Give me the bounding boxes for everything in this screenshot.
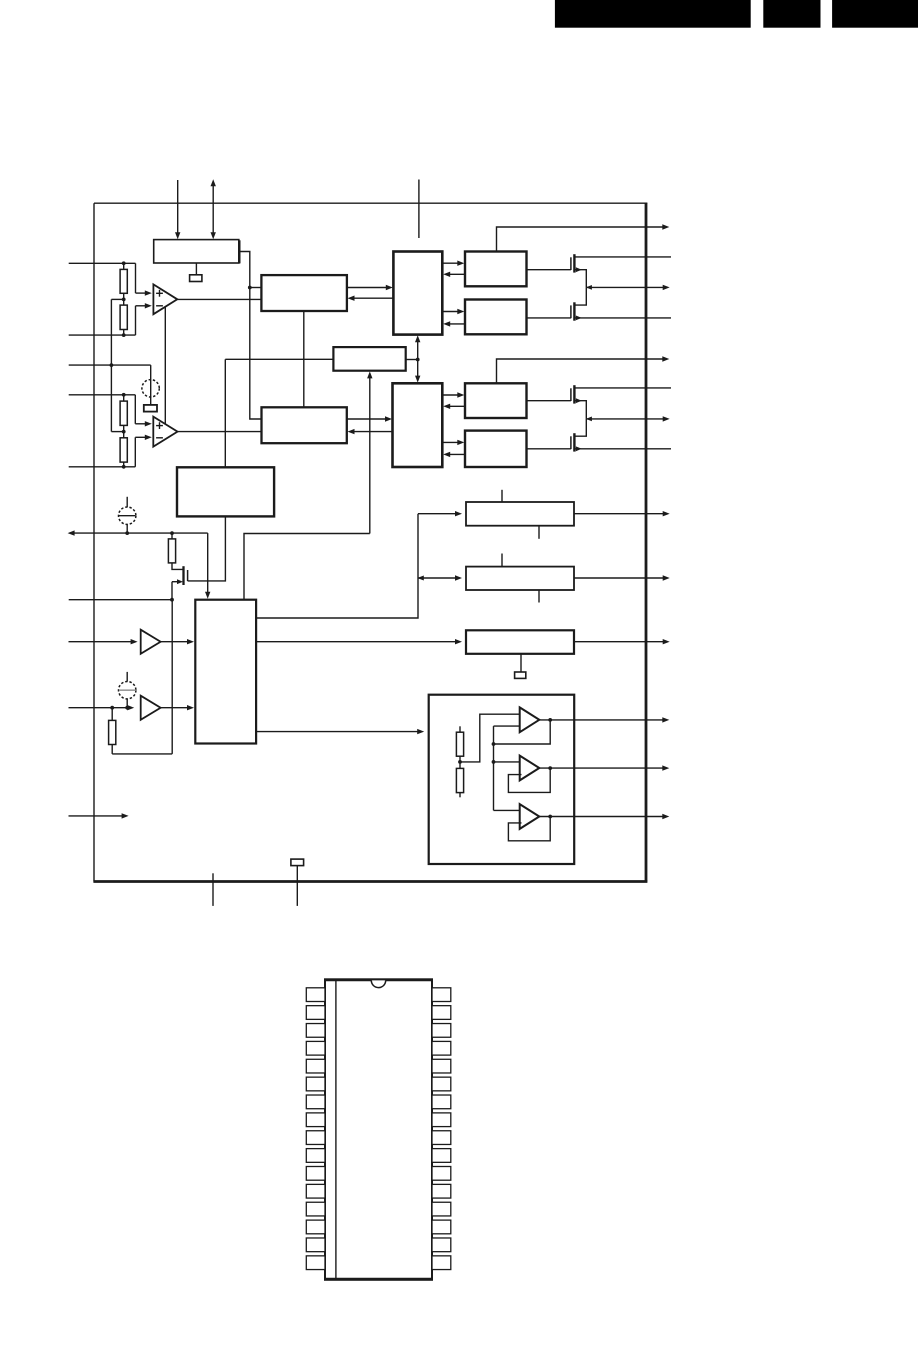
node A1 output [548, 718, 552, 722]
pin 27 right [432, 1077, 451, 1091]
pin 5 left [306, 1059, 325, 1073]
transistor Q1 drain wire [172, 563, 184, 570]
terminal X4 under B8 [515, 672, 526, 678]
input line IN1+ [69, 262, 136, 264]
wire Q6 source to RNF2 pin [574, 448, 671, 450]
wire Q3 source to node OUT1 [574, 270, 586, 288]
IC package pin-1 strip line [335, 980, 337, 1279]
current source I2 [119, 507, 136, 524]
node R2 bottom [122, 333, 126, 337]
block DRV-A high side driver 1 [465, 252, 527, 287]
pin 6 left [306, 1077, 325, 1091]
resistor R2 [120, 305, 127, 335]
pin 32 right [432, 988, 451, 1002]
block B1 oscillator [154, 240, 240, 264]
terminal X3 above GND2 [291, 859, 304, 866]
input line IN2- [69, 466, 136, 468]
wire B3 output to control bus [406, 359, 418, 361]
comparator A2 [520, 756, 540, 781]
wire Q4 source to RNF1 pin [574, 317, 671, 319]
wire U1 output to PWM1 [177, 298, 261, 300]
wire T1 output [161, 639, 194, 644]
pin 12 left [306, 1184, 325, 1198]
block B3 triangle generator [333, 347, 405, 371]
block B7 protection latch 2 [466, 554, 574, 603]
output line B8 [574, 639, 670, 644]
block B8 thermal shutdown [466, 630, 574, 654]
wire B4 riser to B3 [225, 358, 333, 360]
wire CTRL2 to DRV-C [442, 392, 464, 397]
control bus double arrow [415, 335, 420, 382]
output line bootstrap 1 [497, 224, 670, 251]
wire tap1 to tap bus [111, 298, 123, 300]
block B4 mode control [177, 467, 274, 516]
wire U1 - input [136, 303, 152, 335]
pin 29 right [432, 1041, 451, 1055]
node R6 top [110, 706, 114, 710]
block CTRL2 lower gate control [393, 383, 443, 467]
wire tap2 to tap bus [111, 431, 123, 433]
block PWM2 [262, 407, 347, 443]
input line start/stop [69, 639, 138, 644]
block CTRL1 upper gate control [393, 252, 442, 335]
node junction B1/PWM1 [248, 286, 252, 290]
block PWM1 [261, 275, 347, 311]
transistor Q4 low side [571, 302, 582, 320]
buffer T2 [141, 696, 161, 720]
resistor R4 [120, 438, 127, 467]
pin 26 right [432, 1095, 451, 1109]
terminal X1 under B1 [190, 275, 202, 282]
wire DRV-C to CTRL2 return [443, 404, 465, 409]
block DRV-B low side driver 1 [465, 300, 527, 335]
wire riser to R6 return [171, 600, 173, 754]
wire Q1 gate riser [171, 582, 173, 600]
IC boundary frame [93, 203, 647, 881]
wire bus to A3 input [494, 809, 520, 811]
node A1 fb / bus [492, 742, 496, 746]
node B3/control bus [416, 358, 420, 362]
wire DRV-B to Q4 gate [527, 317, 571, 319]
pin 15 left [306, 1238, 325, 1252]
pin 23 right [432, 1149, 451, 1163]
IC package body [324, 979, 433, 1280]
wire B1 output to PWM blocks [239, 252, 262, 420]
resistor R6 [109, 708, 116, 754]
wire PWM2 to CTRL2 [347, 416, 392, 421]
node A2 output [548, 766, 552, 770]
wire B8 bottom stub [520, 654, 522, 672]
output line A3 to W pin [539, 814, 669, 819]
wire bus to A2 input [494, 761, 520, 763]
output line A2 to V pin [539, 765, 669, 770]
wire DRV-D to Q6 gate [527, 448, 571, 450]
node divider tap 1 [122, 298, 126, 302]
wire U2 - input [135, 435, 152, 467]
pin 14 left [306, 1220, 325, 1234]
pin 1 left [306, 988, 325, 1002]
title redaction bar 3 [832, 0, 918, 28]
resistor R8 [456, 768, 463, 797]
op-amp U1 [153, 284, 177, 314]
pin stub GND2 [296, 866, 298, 906]
wire PWM1 to PWM2 stub [303, 311, 305, 407]
wire A2 feedback [508, 768, 550, 792]
pin 28 right [432, 1059, 451, 1073]
buffer T1 [141, 630, 161, 654]
current source I1 [142, 380, 159, 397]
wire DRV-A to Q3 gate [527, 269, 571, 271]
transistor Q1 gate wire [172, 579, 183, 584]
input line trigger [69, 599, 172, 601]
wire U2 + input [135, 395, 152, 427]
input line Vref [69, 364, 151, 366]
block B9 hall comparators [429, 695, 575, 864]
output line OUT2 [586, 416, 670, 421]
pin 3 left [306, 1024, 325, 1038]
input line IN1- [69, 334, 136, 336]
wire I2 top stub [126, 497, 128, 507]
wire A3 feedback [508, 817, 550, 841]
wire tap to A1 input [460, 714, 520, 762]
node I2/CT [125, 531, 129, 535]
wire B5 riser to B3 bottom [244, 371, 373, 599]
node R3 top [122, 393, 126, 397]
wire CT drop into logic block arrow [205, 533, 210, 599]
output line OUT1 [586, 285, 670, 290]
transistor Q5 high side [571, 385, 582, 403]
wire R7 top stub [459, 726, 461, 732]
input line FG (unconnected) [69, 813, 129, 818]
wire B5 to hall block [256, 729, 424, 734]
block DRV-D low side driver 2 [465, 431, 527, 467]
wire CTRL1 to DRV-A [442, 261, 464, 266]
wire U1-U2 bias link [164, 307, 166, 424]
wire I3 top stub [126, 672, 128, 682]
pin 11 left [306, 1167, 325, 1181]
pin 4 left [306, 1041, 325, 1055]
wire A1 feedback [494, 720, 551, 744]
input line IN2+ [69, 394, 136, 396]
current source I3 [119, 682, 136, 699]
wire CTRL1 to PWM1 return [348, 296, 394, 301]
pin 20 right [432, 1202, 451, 1216]
wire Q3 drain to VM pin [574, 256, 671, 258]
op-amp U2 [153, 417, 177, 447]
wire B5 to B8 [256, 639, 462, 644]
wire node OUT2 to Q6 drain [575, 419, 587, 436]
pin 7 left [306, 1095, 325, 1109]
IC package notch [371, 980, 385, 987]
pin 21 right [432, 1184, 451, 1198]
wire R6 return bottom [112, 753, 172, 755]
wire node OUT1 to Q4 drain [575, 287, 587, 305]
wire DRV-C to Q5 gate [527, 400, 571, 402]
wire R7-R8 link [459, 756, 461, 768]
wire DRV-D to CTRL2 return [443, 452, 465, 457]
pin 30 right [432, 1024, 451, 1038]
pin 31 right [432, 1006, 451, 1020]
node A3 output [548, 815, 552, 819]
output line CT to left pin [68, 530, 208, 535]
block DRV-C high side driver 2 [465, 383, 527, 418]
wire Q1 source to mode block [188, 516, 226, 581]
wire Q5 drain to VM2 pin [574, 387, 671, 389]
pin 24 right [432, 1131, 451, 1145]
pin 10 left [306, 1149, 325, 1163]
pin 13 left [306, 1202, 325, 1216]
wire Vref drop to I1 [150, 365, 152, 405]
wire I2 to CT line [126, 524, 128, 533]
node I3/input [125, 706, 129, 710]
comparator A3 [520, 804, 540, 829]
node R1 top [122, 261, 126, 265]
title redaction bar 1 [555, 0, 751, 28]
wire U2 output to PWM2 [178, 431, 262, 433]
pin 9 left [306, 1131, 325, 1145]
transistor Q3 high side [571, 254, 582, 272]
wire CTRL1 to DRV-B [442, 309, 464, 314]
pin 2 left [306, 1006, 325, 1020]
pin stub bidirectional into oscillator [211, 179, 216, 239]
terminal X2 under I1 [144, 405, 157, 412]
node riser/B7 branch [417, 575, 462, 580]
node divider tap 2 [122, 430, 126, 434]
wire B1 bottom stub [195, 263, 197, 275]
wire R1-R2 tap [123, 293, 125, 305]
wire DRV-B to CTRL1 return [443, 321, 465, 326]
wire CTRL2 to PWM2 return [348, 429, 393, 434]
pin stub GND1 [212, 873, 214, 906]
wire Q5 source to node OUT2 [574, 401, 586, 419]
resistor R1 [120, 263, 127, 293]
pin 8 left [306, 1113, 325, 1127]
pin stub top center [418, 180, 420, 239]
output line bootstrap 2 [497, 356, 670, 383]
node R4 bottom [122, 465, 126, 469]
output line A1 to U pin [539, 717, 669, 722]
wire vertical tap bus [110, 299, 112, 431]
pin 22 right [432, 1167, 451, 1181]
title redaction bar 2 [763, 0, 820, 28]
wire comparator bias bus [494, 726, 520, 810]
wire CTRL2 to DRV-D [442, 440, 464, 445]
node R7/R8 tap [458, 760, 462, 764]
resistor R7 [456, 732, 463, 756]
wire T2 output [161, 705, 194, 710]
node gate line [170, 598, 174, 602]
resistor R5 [168, 533, 175, 563]
transistor Q1 [184, 566, 188, 585]
resistor R3 [120, 395, 127, 426]
input line speed control [69, 705, 135, 710]
block B6 protection latch 1 [466, 490, 574, 539]
node bus / tap [492, 760, 496, 764]
wire B4 top riser [224, 359, 226, 467]
node CT/R5 [170, 531, 174, 535]
pin 19 right [432, 1220, 451, 1234]
node tap bus / Vref [110, 363, 114, 367]
wire PWM1 to CTRL1 [347, 285, 393, 290]
pin 18 right [432, 1238, 451, 1252]
pin stub VCC into oscillator [175, 180, 180, 239]
pin 25 right [432, 1113, 451, 1127]
pin 16 left [306, 1256, 325, 1270]
pin 17 right [432, 1256, 451, 1270]
wire DRV-A to CTRL1 return [443, 272, 465, 277]
wire R3-R4 tap [123, 425, 125, 437]
output line B7 [574, 575, 670, 580]
transistor Q6 low side [571, 433, 582, 451]
block B5 logic [195, 600, 256, 744]
comparator A1 [520, 707, 540, 732]
output line B6 [574, 511, 670, 516]
wire I3 to input line [126, 699, 128, 708]
wire U1 + input [136, 263, 152, 296]
wire B5 to B6 riser [256, 511, 462, 618]
